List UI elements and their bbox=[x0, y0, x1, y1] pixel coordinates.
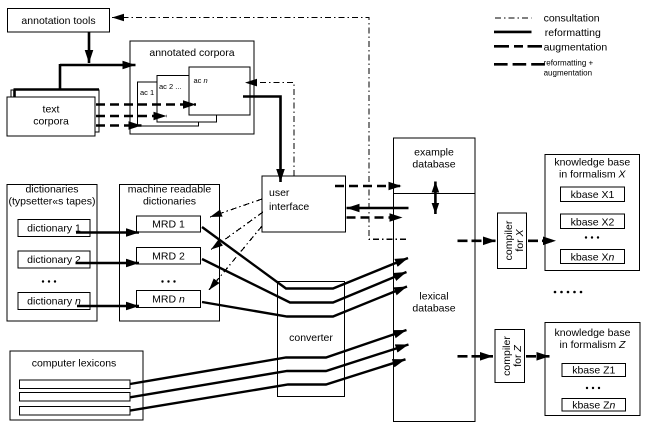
svg-text:example: example bbox=[414, 147, 454, 159]
svg-text:MRD 1: MRD 1 bbox=[152, 219, 185, 231]
svg-text:for Z: for Z bbox=[512, 345, 524, 367]
svg-text:knowledge base: knowledge base bbox=[555, 327, 631, 339]
svg-text:kbase Xn: kbase Xn bbox=[571, 252, 615, 264]
svg-text:user: user bbox=[269, 187, 290, 199]
svg-text:ac 1: ac 1 bbox=[140, 88, 154, 97]
svg-text:(typsetter«s tapes): (typsetter«s tapes) bbox=[9, 195, 96, 207]
svg-text:dictionaries: dictionaries bbox=[25, 183, 78, 195]
svg-text:text: text bbox=[43, 104, 60, 116]
svg-text:interface: interface bbox=[269, 201, 309, 213]
svg-text:augmentation: augmentation bbox=[544, 42, 608, 54]
svg-text:in formalism Z: in formalism Z bbox=[560, 339, 627, 351]
svg-text:annotated corpora: annotated corpora bbox=[149, 47, 234, 59]
svg-text:augmentation: augmentation bbox=[544, 69, 592, 78]
svg-text:kbase Z1: kbase Z1 bbox=[572, 365, 615, 377]
svg-text:dictionary 2: dictionary 2 bbox=[27, 254, 81, 266]
svg-text:computer lexicons: computer lexicons bbox=[32, 358, 117, 370]
svg-text:reformatting: reformatting bbox=[545, 27, 601, 39]
svg-text:corpora: corpora bbox=[33, 116, 69, 128]
svg-text:consultation: consultation bbox=[544, 13, 600, 25]
svg-text:database: database bbox=[412, 303, 455, 315]
svg-text:for X: for X bbox=[514, 228, 526, 251]
svg-text:MRD n: MRD n bbox=[152, 294, 185, 306]
svg-text:converter: converter bbox=[289, 332, 333, 344]
svg-text:ac n: ac n bbox=[194, 76, 208, 85]
svg-text:database: database bbox=[412, 159, 455, 171]
svg-text:dictionary n: dictionary n bbox=[27, 296, 81, 308]
svg-text:reformatting +: reformatting + bbox=[544, 59, 594, 68]
svg-text:machine readable: machine readable bbox=[128, 183, 212, 195]
svg-text:kbase Zn: kbase Zn bbox=[572, 400, 615, 412]
svg-text:dictionaries: dictionaries bbox=[143, 195, 196, 207]
svg-text:annotation tools: annotation tools bbox=[21, 15, 95, 27]
svg-text:kbase X1: kbase X1 bbox=[571, 189, 615, 201]
svg-text:lexical: lexical bbox=[419, 291, 448, 303]
svg-text:ac 2 ...: ac 2 ... bbox=[159, 82, 182, 91]
svg-text:dictionary 1: dictionary 1 bbox=[27, 223, 81, 235]
svg-text:MRD 2: MRD 2 bbox=[152, 251, 185, 263]
svg-text:kbase X2: kbase X2 bbox=[571, 216, 615, 228]
svg-text:knowledge base: knowledge base bbox=[554, 157, 630, 169]
svg-text:in formalism X: in formalism X bbox=[559, 169, 627, 181]
